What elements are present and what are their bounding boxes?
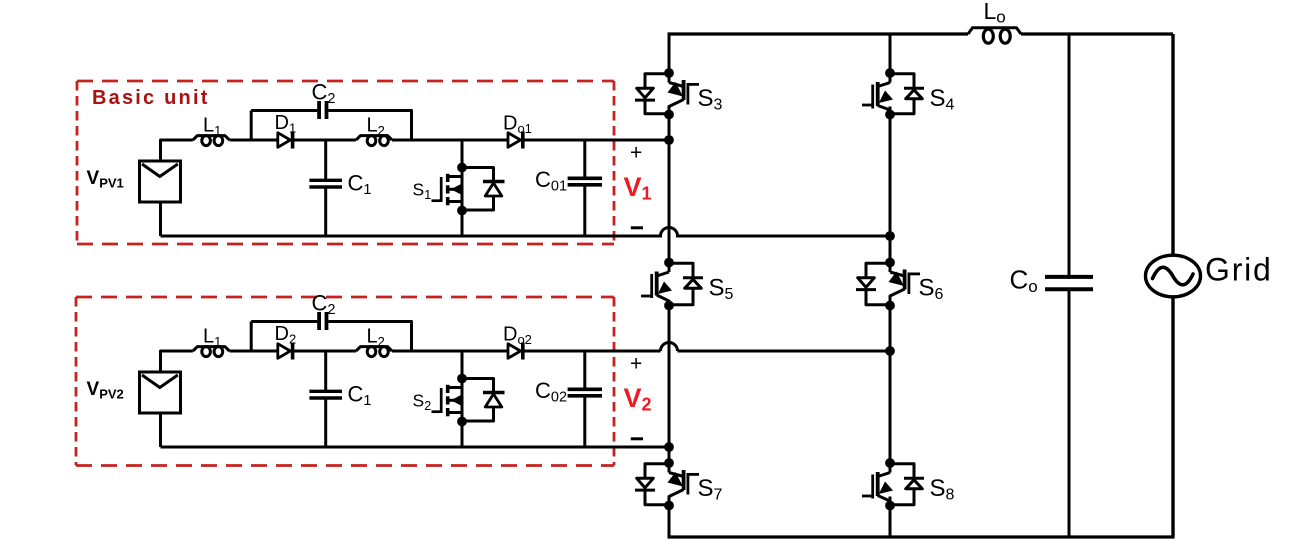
wire: left leg S3-S5 segment (668, 107, 671, 273)
transistor S3 (IGBT, gate right) (668, 73, 700, 115)
svg-text:L2: L2 (367, 326, 385, 350)
svg-text:VPV2: VPV2 (87, 379, 124, 402)
svg-text:S8: S8 (930, 475, 955, 504)
PV source VPV1 (140, 161, 181, 202)
transistor S1 (MOSFET) (432, 140, 463, 236)
node: emitter of S5 (664, 301, 674, 311)
wire: VPV2 positive lead (161, 351, 193, 372)
node: collector of S4 (885, 68, 895, 78)
antiparallel diode of S5 (669, 263, 703, 304)
inductor L1 (unit 1) (193, 136, 230, 140)
svg-text:Grid: Grid (1205, 252, 1273, 288)
node: emitter of S4 (885, 110, 895, 120)
capacitor C1 branch (unit 1) (309, 140, 342, 236)
transistor S5 (IGBT, gate left) (641, 263, 672, 306)
antiparallel diode of S4 (890, 74, 924, 114)
node: collector of S5 (664, 258, 674, 268)
wire: C2 branch right + drop (329, 111, 412, 141)
inductor L1 (unit 2) (193, 347, 230, 351)
node: drain of S2 (457, 374, 467, 384)
transistor S4 (IGBT, gate left) (862, 73, 893, 115)
node: collector of S3 (664, 68, 674, 78)
wire: D1 to L2 with C1 tap (293, 139, 356, 142)
svg-text:L2: L2 (367, 115, 385, 139)
wire: unit2 bottom rail to left leg (161, 446, 670, 449)
inductor L2 (unit 2) (356, 347, 392, 351)
wire: top rail left of Lo (668, 32, 969, 35)
node: emitter of S3 (664, 110, 674, 120)
wire: L1 to D2 (229, 350, 277, 353)
wire: left leg bottom segment (668, 497, 671, 538)
wire: left leg top segment (top rail corner to S3) (668, 33, 671, 83)
inductor Lo (968, 28, 1021, 34)
wire: C2 branch left (251, 320, 317, 323)
capacitor C01 branch (568, 140, 602, 236)
svg-text:C2: C2 (312, 291, 336, 319)
wire: VPV1 negative lead (159, 202, 162, 236)
diode Do2 (508, 344, 521, 359)
label - (V2 negative) (631, 437, 643, 440)
body diode of S2 (462, 379, 505, 422)
transistor S6 (IGBT, gate right) (889, 263, 921, 306)
dashed red box (basic unit 1) (77, 81, 614, 244)
svg-text:L1: L1 (203, 326, 221, 350)
capacitor Co (1045, 277, 1093, 289)
svg-text:C02: C02 (535, 378, 567, 406)
body diode of S1 (462, 168, 505, 211)
svg-text:L1: L1 (203, 115, 221, 139)
wire: Do2 to output (523, 350, 661, 353)
label - (V1 negative) (631, 226, 643, 229)
capacitor C2 (unit 1) (319, 101, 326, 119)
svg-text:V2: V2 (624, 383, 652, 415)
wire: riser to C2 branch (250, 322, 253, 352)
wire: right leg top segment (889, 34, 892, 83)
wire: VPV1 positive lead (161, 140, 193, 161)
wire: Co branch upper (1068, 34, 1071, 277)
svg-text:Do2: Do2 (503, 324, 532, 348)
svg-text:S1: S1 (413, 180, 432, 203)
svg-text:S4: S4 (930, 85, 955, 114)
node: source of S2 (457, 417, 467, 427)
svg-text:S7: S7 (698, 475, 723, 504)
wire: L1 to D1 (229, 139, 277, 142)
wire: grid branch upper (1171, 34, 1174, 256)
diode D2 (278, 344, 291, 359)
node: source of S1 (457, 206, 467, 216)
diode Do1 (508, 133, 521, 148)
svg-text:S5: S5 (709, 275, 734, 304)
node: emitter of S7 (664, 501, 674, 511)
wire: VPV2 negative lead (159, 413, 162, 447)
svg-text:S3: S3 (698, 85, 723, 114)
node: emitter of S6 (885, 301, 895, 311)
node: emitter of S8 (885, 501, 895, 511)
node: V2- junction on left leg (664, 442, 674, 452)
wire: right leg S6-S8 segment (889, 300, 892, 473)
wire: right leg bottom segment (889, 497, 892, 538)
transistor S7 (IGBT, gate right) (668, 463, 700, 506)
antiparallel diode of S6 (856, 263, 890, 304)
wire: grid branch lower (1171, 297, 1174, 538)
wire: left leg S5-S7 segment (668, 300, 671, 473)
wire: unit2 output+ with hop over left leg, to right leg (661, 343, 891, 352)
wire: riser to C2 branch (250, 111, 253, 141)
wire: C2 branch left (251, 109, 317, 112)
diode D1 (278, 133, 291, 148)
svg-text:C01: C01 (535, 167, 567, 195)
svg-text:V1: V1 (624, 172, 652, 204)
svg-text:VPV1: VPV1 (87, 168, 124, 191)
wire: Do1 to output (523, 139, 669, 142)
svg-text:D1: D1 (275, 112, 297, 136)
node: collector of S8 (885, 458, 895, 468)
wire: L2 to Do1 (392, 139, 508, 142)
antiparallel diode of S7 (635, 464, 669, 505)
AC source (grid) (1146, 255, 1201, 297)
capacitor C02 branch (568, 351, 602, 447)
svg-text:C1: C1 (348, 382, 372, 410)
svg-text:Basic unit: Basic unit (92, 87, 210, 109)
PV source VPV2 (140, 372, 181, 413)
capacitor C2 (unit 2) (319, 312, 326, 330)
svg-text:+: + (630, 353, 642, 376)
svg-text:S2: S2 (413, 391, 432, 414)
capacitor C1 branch (unit 2) (309, 351, 342, 447)
wire: right leg S4-S6 segment (889, 107, 892, 273)
wire: D2 to L2 with C1 tap (293, 350, 356, 353)
svg-text:D2: D2 (275, 323, 297, 347)
svg-text:S6: S6 (919, 275, 944, 304)
dashed red box (basic unit 2) (76, 297, 614, 466)
inductor L2 (unit 1) (356, 136, 392, 140)
node: V1+ junction on left leg (664, 135, 674, 145)
wire: C2 branch right + drop (329, 322, 412, 352)
wire: unit1 bottom rail with hop over left leg, to right leg (161, 228, 891, 237)
transistor S8 (IGBT, gate left) (862, 463, 893, 506)
svg-text:C2: C2 (312, 80, 336, 108)
svg-text:Lo: Lo (984, 0, 1006, 27)
wire: bottom rail (668, 535, 1175, 538)
node: V2+ junction on right leg (885, 346, 895, 356)
wire: top rail right of Lo (1021, 32, 1173, 35)
svg-text:Do1: Do1 (503, 113, 532, 137)
transistor S2 (MOSFET) (432, 351, 463, 447)
svg-text:+: + (630, 142, 642, 165)
node: collector of S6 (885, 258, 895, 268)
wire: Co branch lower (1068, 289, 1071, 537)
antiparallel diode of S8 (890, 464, 924, 505)
svg-text:Co: Co (1010, 265, 1038, 297)
node: drain of S1 (457, 163, 467, 173)
wire: L2 to Do2 (392, 350, 508, 353)
node: collector of S7 (664, 458, 674, 468)
svg-text:C1: C1 (348, 171, 372, 199)
node: V1- junction on right leg (885, 231, 895, 241)
antiparallel diode of S3 (635, 74, 669, 114)
